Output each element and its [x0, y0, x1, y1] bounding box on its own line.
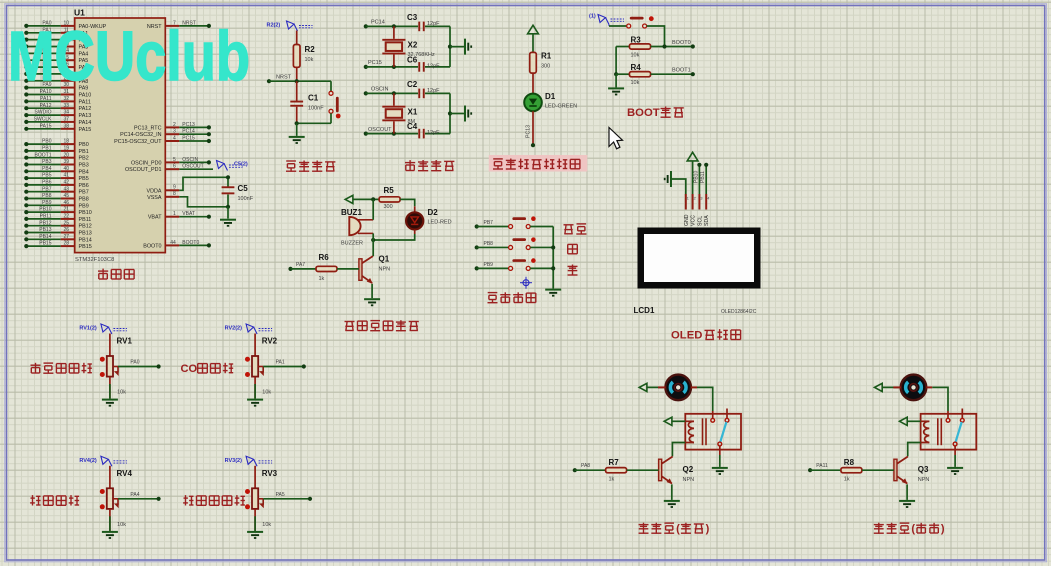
- U1 pin 11 PA1 / net PA1 wire: [24, 27, 88, 36]
- wire flag to boot button: [609, 25, 627, 27]
- svg-text:R3: R3: [631, 35, 642, 44]
- svg-text:PB3: PB3: [79, 163, 89, 169]
- wire X2 right rail: [448, 26, 464, 67]
- transistor Q2 NPN: [659, 457, 695, 485]
- svg-text:PB13: PB13: [79, 231, 92, 237]
- label 苯值调节: [30, 495, 79, 505]
- svg-text:C5(2): C5(2): [234, 162, 248, 168]
- U1 pin 15 PA5 / net PA5 wire: [24, 55, 88, 64]
- svg-text:5: 5: [173, 157, 176, 163]
- svg-text:300: 300: [541, 64, 550, 70]
- ground relay RL1: [712, 467, 728, 475]
- svg-text:12pF: 12pF: [427, 88, 440, 94]
- svg-text:R1: R1: [541, 52, 552, 61]
- U1 pin 38 PA15 / net PA15 wire: [24, 123, 91, 132]
- svg-text:PC15: PC15: [182, 135, 195, 141]
- U1 pin 27 PB14 / net PB14 wire: [24, 234, 91, 243]
- svg-text:2: 2: [173, 122, 176, 128]
- power arrow motor Q3: [875, 383, 901, 391]
- svg-text:PA0: PA0: [130, 360, 139, 366]
- power flag RV2(2): [225, 324, 273, 334]
- svg-text:(: (: [911, 523, 915, 535]
- svg-text:PB14: PB14: [39, 234, 51, 240]
- svg-text:PC15-OSC32_OUT: PC15-OSC32_OUT: [114, 139, 162, 145]
- net PA4 wire: [118, 492, 161, 501]
- relay RL1 body: [685, 414, 741, 450]
- net PC13 wire: [526, 111, 536, 147]
- svg-text:300: 300: [384, 204, 393, 210]
- svg-text:100nF: 100nF: [308, 106, 324, 112]
- svg-text:43: 43: [64, 186, 70, 192]
- RV2 value 10k: [262, 390, 271, 396]
- wire button PB8 to rail: [530, 246, 553, 248]
- svg-text:PB11: PB11: [700, 171, 706, 183]
- ground OLED rotated: [664, 171, 672, 187]
- svg-text:10k: 10k: [117, 390, 126, 396]
- svg-text:PB4: PB4: [42, 166, 52, 172]
- LED D2 LED-RED: [406, 208, 452, 229]
- svg-text:): ): [706, 523, 710, 535]
- label 主芯片: [98, 269, 134, 279]
- capacitor C2: [407, 80, 450, 98]
- svg-text:32: 32: [64, 96, 70, 102]
- potentiometer RV4: [100, 469, 133, 510]
- wire RV1 top: [109, 334, 111, 357]
- net PC15 wire: [364, 60, 418, 69]
- potentiometer RV1: [100, 337, 133, 378]
- capacitor C1: [290, 81, 324, 123]
- U1 pin 3 PC14-OSC32_IN / net PC14 wire: [120, 129, 211, 139]
- svg-text:RV4: RV4: [117, 469, 133, 478]
- svg-text:PB11: PB11: [40, 214, 52, 220]
- svg-text:NRST: NRST: [276, 75, 292, 81]
- svg-text:PB0: PB0: [79, 142, 89, 148]
- ground buttons: [545, 289, 561, 297]
- svg-text:BOOT0: BOOT0: [143, 243, 161, 249]
- U1 pin 28 PB15 / net PB15 wire: [24, 241, 91, 250]
- svg-text:PA5: PA5: [276, 492, 285, 498]
- label 甲醛值调节: [183, 495, 245, 505]
- wire R4 to ground: [615, 74, 617, 87]
- svg-text:12pF: 12pF: [427, 21, 440, 27]
- U1 pin 22 PB11 / net PB11 wire: [24, 214, 91, 223]
- svg-text:PA13: PA13: [79, 113, 92, 119]
- svg-text:VCC: VCC: [691, 215, 697, 226]
- ground RV2: [247, 399, 263, 407]
- power flag RV3(2): [225, 456, 273, 466]
- svg-text:OLED12864I2C: OLED12864I2C: [721, 309, 757, 315]
- svg-text:PB7: PB7: [79, 190, 89, 196]
- svg-text:PB13: PB13: [39, 227, 51, 233]
- label 减: [568, 265, 578, 276]
- svg-text:45: 45: [64, 193, 70, 199]
- MCU U1 body: [75, 18, 166, 253]
- svg-text:27: 27: [64, 234, 70, 240]
- push button 减: [509, 258, 536, 270]
- power arrow alarm: [345, 195, 379, 203]
- svg-text:RV3(2): RV3(2): [225, 458, 242, 464]
- label 程序运行指示灯: [489, 155, 588, 172]
- svg-text:41: 41: [64, 173, 70, 179]
- U1 pin 9 VDDA wire to C5: [147, 177, 228, 194]
- wire button PB9 to rail: [530, 267, 553, 269]
- label BOOT电路: [627, 107, 684, 120]
- svg-text:SDA: SDA: [704, 215, 710, 226]
- svg-text:20: 20: [64, 152, 70, 158]
- label 烟雾值调节: [31, 363, 92, 373]
- U1 pin 29 PA8 / net PA8 wire: [24, 75, 88, 84]
- svg-text:1k: 1k: [319, 276, 325, 282]
- wire R7 to Q2 base: [627, 469, 659, 471]
- capacitor C5: [222, 175, 254, 218]
- svg-text:PB1: PB1: [42, 146, 52, 152]
- wire X1 right rail: [448, 93, 464, 133]
- LCD1 designator: [634, 306, 655, 315]
- svg-text:RV2: RV2: [262, 337, 278, 346]
- wire RV1 bottom: [109, 377, 111, 399]
- U1 pin 7 NRST / net NRST wire: [147, 20, 211, 30]
- svg-text:9: 9: [173, 185, 176, 191]
- svg-text:PC13: PC13: [526, 125, 532, 138]
- svg-text:Q3: Q3: [918, 465, 929, 474]
- svg-text:PA1: PA1: [276, 360, 285, 366]
- svg-text:10k: 10k: [631, 80, 640, 86]
- svg-text:PB2: PB2: [79, 156, 89, 162]
- svg-text:OSCIN: OSCIN: [182, 157, 198, 163]
- net NRST node: [267, 75, 331, 84]
- svg-text:PB8: PB8: [42, 193, 52, 199]
- svg-text:C5: C5: [238, 184, 249, 193]
- svg-text:4: 4: [707, 196, 709, 200]
- svg-text:PA12: PA12: [79, 106, 92, 112]
- resistor R1: [530, 52, 552, 74]
- svg-text:PA4: PA4: [130, 492, 139, 498]
- svg-text:NPN: NPN: [683, 477, 695, 483]
- wire button rail: [551, 227, 555, 289]
- svg-text:PA12: PA12: [40, 103, 52, 109]
- svg-text:X1: X1: [408, 108, 418, 117]
- svg-text:OLED: OLED: [671, 330, 702, 342]
- net PB7 wire: [475, 220, 509, 229]
- ground alarm: [364, 298, 380, 306]
- resistor R2: [293, 45, 315, 68]
- svg-text:PB12: PB12: [79, 224, 92, 230]
- svg-text:38: 38: [64, 123, 70, 129]
- relay RL2 contacts: [946, 409, 964, 446]
- LCD1 OLED display body: [638, 228, 761, 289]
- net PA1 wire: [263, 360, 306, 369]
- wire R8 to Q3 base: [862, 469, 894, 471]
- svg-text:PA11: PA11: [816, 463, 828, 469]
- svg-text:(: (: [676, 523, 680, 535]
- svg-text:RV4(2): RV4(2): [79, 458, 96, 464]
- U1 pin 17 PA7 / net PA7 wire: [24, 69, 88, 78]
- svg-text:R5: R5: [384, 186, 395, 195]
- ground RV1: [102, 399, 118, 407]
- label CO值调节: [181, 363, 234, 375]
- svg-text:PC15: PC15: [368, 60, 382, 66]
- U1 pin 8 VSSA wire to C5 gnd: [147, 191, 228, 207]
- label 独立按键: [488, 292, 536, 302]
- svg-text:26: 26: [64, 227, 70, 233]
- svg-text:BOOT1: BOOT1: [35, 152, 52, 158]
- power arrow OLED VCC: [687, 152, 698, 194]
- potentiometer RV2: [245, 337, 278, 378]
- svg-text:VBAT: VBAT: [182, 211, 195, 217]
- mouse cursor: [609, 128, 623, 149]
- svg-text:PA11: PA11: [40, 96, 52, 102]
- ground RV3: [247, 531, 263, 539]
- svg-text:OSCOUT: OSCOUT: [182, 164, 203, 170]
- wire R1 to D1: [532, 73, 534, 94]
- svg-text:PB8: PB8: [484, 241, 494, 247]
- power arrow relay RL1 coil: [664, 417, 685, 425]
- svg-text:SCL: SCL: [697, 216, 703, 226]
- svg-text:8: 8: [173, 191, 176, 197]
- svg-text:PB0: PB0: [42, 139, 52, 145]
- svg-text:32.768KHz: 32.768KHz: [408, 52, 435, 58]
- svg-text:MCUclub: MCUclub: [8, 17, 250, 95]
- power arrow indicator: [528, 25, 539, 52]
- power flag C5(2) on OSCOUT: [217, 161, 248, 171]
- U1 pin 18 PB0 / net PB0 wire: [24, 139, 89, 148]
- U1 value STM32F103C8: [75, 257, 114, 263]
- svg-text:PA7: PA7: [296, 262, 305, 268]
- svg-text:1k: 1k: [609, 477, 615, 483]
- U1 pin 19 PB1 / net PB1 wire: [24, 146, 89, 155]
- svg-text:PC13: PC13: [182, 122, 195, 128]
- svg-text:18: 18: [64, 139, 70, 145]
- svg-text:PB12: PB12: [39, 220, 51, 226]
- svg-text:(1): (1): [589, 14, 596, 20]
- svg-text:PB9: PB9: [79, 203, 89, 209]
- U1 pin 13 PA3 / net PA3 wire: [24, 41, 88, 50]
- U1 pin 1 VBAT / net VBAT wire: [148, 211, 211, 221]
- wire Q1 emitter to ground: [371, 284, 373, 298]
- svg-text:BUZ1: BUZ1: [341, 208, 362, 217]
- crystal X1: [382, 93, 418, 133]
- svg-text:33: 33: [64, 103, 70, 109]
- net OSCIN wire: [364, 87, 418, 96]
- wire motor to relay RL1: [691, 387, 713, 418]
- U1 pin 20 PB2 / net BOOT1 wire: [24, 152, 89, 161]
- ground boot: [608, 87, 624, 95]
- svg-text:Q1: Q1: [379, 255, 390, 264]
- wire relay RL2 common to ground: [954, 446, 956, 467]
- svg-text:PB11: PB11: [79, 217, 92, 223]
- svg-text:Q2: Q2: [683, 465, 694, 474]
- power flag (1): [589, 14, 624, 25]
- svg-text:1k: 1k: [844, 477, 850, 483]
- capacitor C3: [407, 13, 450, 31]
- RV3 value 10k: [262, 522, 271, 528]
- U1 pin 44 BOOT0 / net BOOT0 wire: [143, 240, 211, 250]
- U1 pin 5 OSCIN_PD0 / net OSCIN wire: [131, 157, 211, 167]
- net PB10 wire SCL: [693, 163, 701, 194]
- relay RL1 coil: [685, 418, 706, 445]
- svg-text:12pF: 12pF: [427, 130, 440, 136]
- U1 pin 31 PA10 / net PA10 wire: [24, 89, 91, 98]
- svg-text:R7: R7: [609, 458, 620, 467]
- label 声光报警电路: [345, 320, 419, 331]
- svg-text:OSCIN: OSCIN: [371, 87, 388, 93]
- svg-text:PA15: PA15: [40, 123, 52, 129]
- capacitor C4: [407, 122, 450, 138]
- svg-text:PB5: PB5: [42, 173, 52, 179]
- net PB8 wire: [475, 241, 509, 250]
- wire relay coil to Q3 collector: [908, 443, 921, 457]
- svg-text:D1: D1: [545, 92, 556, 101]
- U1 pin 41 PB5 / net PB5 wire: [24, 173, 89, 182]
- svg-text:NPN: NPN: [918, 477, 930, 483]
- svg-text:CO: CO: [181, 363, 198, 375]
- wire RV3 top: [254, 466, 256, 489]
- svg-text:RV1: RV1: [117, 337, 133, 346]
- svg-text:LED-RED: LED-RED: [428, 220, 452, 226]
- svg-text:R4: R4: [631, 63, 642, 72]
- svg-text:BOOT: BOOT: [627, 107, 660, 119]
- U1 pin 43 PB7 / net PB7 wire: [24, 186, 89, 195]
- resistor R4: [616, 63, 651, 86]
- net PC14 wire: [364, 20, 418, 29]
- svg-text:25: 25: [64, 220, 70, 226]
- power arrow motor Q2: [639, 383, 665, 391]
- push button boot: [627, 16, 654, 28]
- U1 pin 26 PB13 / net PB13 wire: [24, 227, 91, 236]
- svg-text:PB10: PB10: [79, 210, 92, 216]
- svg-text:OSCIN_PD0: OSCIN_PD0: [131, 160, 162, 166]
- svg-text:PB3: PB3: [42, 159, 52, 165]
- wire D2 to node: [371, 230, 415, 243]
- svg-text:10k: 10k: [631, 53, 640, 59]
- relay RL1 contacts: [711, 409, 729, 446]
- svg-text:SWDIO: SWDIO: [35, 110, 52, 116]
- svg-text:39: 39: [64, 159, 70, 165]
- LCD1 pins GND VCC SCL SDA: [684, 194, 710, 226]
- ground Q2: [664, 500, 680, 508]
- LCD1 value OLED12864I2C: [721, 309, 757, 315]
- svg-text:C2: C2: [407, 80, 418, 89]
- RV4 value 10k: [117, 522, 126, 528]
- svg-text:10k: 10k: [305, 57, 314, 63]
- U1 pin 33 PA12 / net PA12 wire: [24, 103, 91, 112]
- svg-text:40: 40: [64, 166, 70, 172]
- svg-text:U1: U1: [74, 8, 85, 18]
- svg-text:): ): [941, 523, 945, 535]
- U1 pin 45 PB8 / net PB8 wire: [24, 193, 89, 202]
- svg-text:3: 3: [700, 196, 702, 200]
- svg-text:NPN: NPN: [379, 267, 391, 273]
- resistor R1: [606, 458, 627, 483]
- svg-text:22: 22: [64, 214, 70, 220]
- U1 pin 6 OSCOUT_PD1 / net OSCOUT wire: [125, 164, 213, 174]
- label OLED显示屏: [671, 329, 741, 341]
- svg-text:BOOT0: BOOT0: [672, 40, 691, 46]
- U1 pin 42 PB6 / net PB6 wire: [24, 180, 89, 189]
- svg-text:PB15: PB15: [39, 241, 51, 247]
- transistor Q1 NPN: [359, 240, 390, 284]
- svg-text:STM32F103C8: STM32F103C8: [75, 257, 114, 263]
- net PA8 wire: [573, 463, 606, 472]
- svg-text:C1: C1: [308, 94, 319, 103]
- svg-text:44: 44: [170, 240, 176, 246]
- svg-text:PB9: PB9: [484, 262, 494, 268]
- svg-text:PB14: PB14: [79, 237, 92, 243]
- U1 pin 25 PB12 / net PB12 wire: [24, 220, 91, 229]
- MCUclub watermark: [8, 17, 250, 95]
- U1 pin 32 PA11 / net PA11 wire: [24, 96, 91, 105]
- LED D1 LED-GREEN: [524, 92, 577, 111]
- svg-text:RV1(2): RV1(2): [79, 326, 96, 332]
- svg-text:R2: R2: [305, 45, 316, 54]
- svg-text:PB7: PB7: [484, 220, 494, 226]
- wire RV4 top: [109, 466, 111, 489]
- label 设置: [564, 224, 587, 234]
- motor 继电器(风扇): [665, 375, 691, 401]
- svg-text:10k: 10k: [117, 522, 126, 528]
- U1 pin 34 PA13 / net SWDIO wire: [24, 110, 91, 119]
- wire R5 to D2: [400, 199, 415, 212]
- svg-text:PC14: PC14: [371, 20, 385, 26]
- label 继电器(净化): [874, 523, 945, 535]
- wire R6 to Q1 base: [337, 268, 359, 270]
- svg-text:21: 21: [64, 207, 70, 213]
- origin marker: [520, 277, 532, 289]
- svg-text:R2(2): R2(2): [267, 23, 281, 29]
- U1 pin 16 PA6 / net PA6 wire: [24, 62, 88, 71]
- ground reset: [289, 136, 305, 144]
- wire C1 to ground: [296, 123, 298, 136]
- net PA7 wire: [288, 262, 316, 271]
- U1 pin 46 PB9 / net PB9 wire: [24, 200, 89, 209]
- svg-text:28: 28: [64, 241, 70, 247]
- motor 继电器(净化): [901, 375, 927, 401]
- svg-text:12pF: 12pF: [427, 63, 440, 69]
- transistor Q3 NPN: [894, 457, 930, 485]
- svg-text:PB10: PB10: [39, 207, 51, 213]
- U1 pin 39 PB3 / net PB3 wire: [24, 159, 89, 168]
- label 加: [568, 244, 578, 253]
- U1 designator: [74, 8, 85, 18]
- wire relay RL1 common to ground: [719, 446, 721, 467]
- push button 加: [509, 237, 536, 249]
- OLED GND pin wire to ground: [672, 179, 686, 194]
- svg-text:BOOT0: BOOT0: [182, 240, 199, 246]
- svg-text:OSCOUT_PD1: OSCOUT_PD1: [125, 167, 162, 173]
- wire RV4 bottom: [109, 509, 111, 531]
- svg-text:LCD1: LCD1: [634, 306, 655, 315]
- svg-text:PC14-OSC32_IN: PC14-OSC32_IN: [120, 132, 161, 138]
- svg-text:OSCOUT: OSCOUT: [368, 127, 392, 133]
- wire relay coil to Q2 collector: [672, 443, 685, 457]
- resistor R3: [616, 35, 651, 58]
- svg-text:PB8: PB8: [79, 197, 89, 203]
- net PA0 wire: [118, 360, 161, 369]
- svg-text:2: 2: [694, 196, 696, 200]
- svg-text:46: 46: [64, 200, 70, 206]
- ground X1 rail: [464, 106, 472, 122]
- svg-text:10k: 10k: [262, 390, 271, 396]
- power flag RV4(2): [79, 456, 127, 466]
- svg-text:PB5: PB5: [79, 176, 89, 182]
- power flag R2(2): [267, 21, 313, 31]
- svg-text:VBAT: VBAT: [148, 215, 162, 221]
- svg-text:C3: C3: [407, 13, 418, 22]
- net PA5 wire: [263, 492, 312, 501]
- svg-text:X2: X2: [408, 41, 418, 50]
- svg-text:PB6: PB6: [42, 180, 52, 186]
- svg-text:PB1: PB1: [79, 149, 89, 155]
